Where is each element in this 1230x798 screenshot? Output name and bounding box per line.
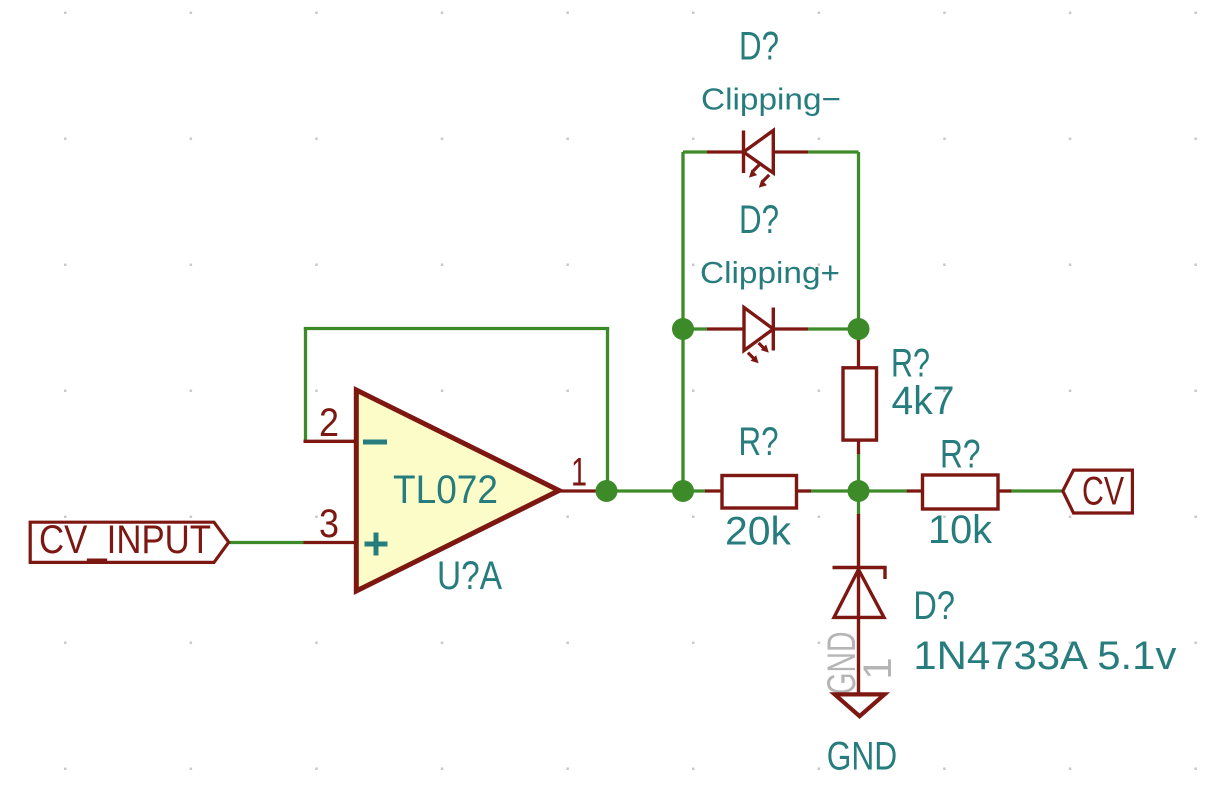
LED D1 Clipping- pins <box>707 150 744 153</box>
resistor R2 4k7 body <box>843 368 877 440</box>
zener D3 cathode bar <box>833 568 886 580</box>
op-amp U1 plus marker <box>365 533 388 556</box>
global label CV_INPUT <box>30 518 229 562</box>
wire between 20k and 10k <box>811 489 908 492</box>
resistor R3 10k pin stubs <box>907 489 923 492</box>
junction node: output pin 1 <box>596 480 618 502</box>
wire diode branch vertical right upper <box>857 152 860 341</box>
LED D2 arrows <box>748 343 765 359</box>
svg-text:TL072: TL072 <box>393 468 498 512</box>
op-amp U1 pin 1 stub <box>558 489 606 492</box>
svg-text:3: 3 <box>319 502 339 546</box>
junction node: 4k7/zener at bus <box>848 480 870 502</box>
wire diode row2 right <box>808 327 859 330</box>
wire diode row2 left <box>683 327 707 330</box>
op-amp U1 minus marker <box>363 440 387 445</box>
ground symbol arrow <box>835 694 885 716</box>
resistor R1 20k pin stubs <box>705 489 723 492</box>
wire main output bus <box>605 489 706 492</box>
svg-text:1N4733A 5.1v: 1N4733A 5.1v <box>913 634 1176 678</box>
svg-text:2: 2 <box>319 401 339 445</box>
wire feedback vertical left <box>304 329 307 442</box>
wire 10k to CV label <box>1010 489 1063 492</box>
LED D2 Clipping+ body (pointing right) <box>744 308 773 351</box>
junction node: clipping+ right <box>848 318 870 340</box>
svg-text:1: 1 <box>571 451 587 495</box>
svg-text:Clipping+: Clipping+ <box>700 255 840 290</box>
wire diode row1 right <box>808 150 859 153</box>
wire feedback horizontal <box>304 327 609 330</box>
wire diode branch vertical left <box>681 152 684 491</box>
wire CV_INPUT to pin 3 <box>229 541 305 544</box>
svg-text:D?: D? <box>739 25 779 69</box>
svg-text:GND: GND <box>827 735 898 779</box>
global label CV <box>1063 470 1133 514</box>
svg-text:20k: 20k <box>725 510 792 554</box>
op-amp U1 pin 3 stub <box>304 541 357 544</box>
wire 4k7 lower to junction <box>857 453 860 502</box>
svg-text:4k7: 4k7 <box>892 379 955 423</box>
wire feedback vertical right <box>606 329 609 492</box>
svg-text:D?: D? <box>913 584 955 628</box>
svg-text:1: 1 <box>856 658 900 680</box>
op-amp U1 body <box>356 390 559 591</box>
LED D2 Clipping+ pins <box>707 327 744 330</box>
resistor R3 10k body <box>923 475 999 509</box>
wire junction to zener <box>857 491 860 515</box>
svg-text:CV_INPUT: CV_INPUT <box>39 518 211 562</box>
LED D1 arrows <box>753 165 769 181</box>
resistor R2 4k7 pin stubs <box>857 340 860 369</box>
svg-text:R?: R? <box>940 433 981 477</box>
svg-text:10k: 10k <box>928 508 993 552</box>
svg-text:R?: R? <box>739 420 779 464</box>
junction node: clipping+ left <box>672 318 694 340</box>
wire diode row1 left <box>683 150 707 153</box>
svg-text:D?: D? <box>739 198 779 242</box>
resistor R1 20k body <box>722 476 797 509</box>
svg-text:U?A: U?A <box>437 554 502 598</box>
LED D1 Clipping- body (pointing left) <box>744 131 774 174</box>
svg-text:Clipping−: Clipping− <box>701 82 841 117</box>
zener D3 pin top (continuous through triangle) <box>857 514 860 693</box>
op-amp U1 pin 2 stub <box>304 440 357 443</box>
svg-text:CV: CV <box>1082 470 1124 514</box>
junction node: diode branch at bus <box>672 480 694 502</box>
zener D3 triangle <box>834 570 884 618</box>
